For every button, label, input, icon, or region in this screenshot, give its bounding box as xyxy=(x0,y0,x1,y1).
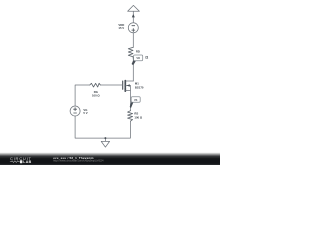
svg-text:Ω: Ω xyxy=(145,56,148,60)
ground triangle xyxy=(101,141,109,147)
arrowhead on VDD flag wire xyxy=(132,14,135,18)
svg-text:VS: VS xyxy=(134,98,138,102)
transistor M1 channel dashes xyxy=(124,81,126,92)
CircuitLab logo bolt block xyxy=(20,160,23,163)
voltage source VDD circle xyxy=(128,23,138,33)
wire RG to gate xyxy=(100,84,122,86)
wire source to RS xyxy=(129,91,131,111)
plus sign in VDD xyxy=(132,29,135,31)
CircuitLab logo zigzag xyxy=(10,161,20,163)
resistor RG zigzag xyxy=(90,83,101,87)
minus sign in VDD xyxy=(132,25,135,27)
minus sign in VG xyxy=(74,112,77,114)
svg-text:LAB: LAB xyxy=(23,160,31,164)
svg-text:VD: VD xyxy=(136,56,140,60)
transistor M1 gate bar xyxy=(122,81,124,89)
svg-text:5 V: 5 V xyxy=(83,111,87,115)
plus sign in VG xyxy=(74,108,77,110)
node flag VD xyxy=(132,55,143,65)
transistor M1 body stub with arrow xyxy=(126,85,131,87)
svg-text:BS170: BS170 xyxy=(135,86,144,90)
ground stub xyxy=(104,138,106,141)
wire VDD flag to source xyxy=(132,11,134,22)
wire VG up to gate corner xyxy=(75,85,90,106)
svg-text:RD: RD xyxy=(136,49,140,53)
resistor RS zigzag xyxy=(128,111,133,122)
transistor M1 source stub xyxy=(126,86,131,91)
voltage source VG circle xyxy=(70,106,80,116)
transistor M1 drain stub xyxy=(126,80,134,82)
wire RD to drain xyxy=(132,59,134,81)
wire VDD source to RD xyxy=(132,33,134,48)
node flag VS xyxy=(130,97,141,108)
VDD power flag triangle xyxy=(128,5,140,11)
junction dot at ground xyxy=(104,137,106,139)
svg-text:100 Ω: 100 Ω xyxy=(134,116,142,120)
svg-text:15 V: 15 V xyxy=(118,26,124,30)
resistor RD zigzag xyxy=(128,47,133,58)
wire RS to bottom rail xyxy=(75,116,130,138)
svg-text:100 Ω: 100 Ω xyxy=(92,94,100,98)
svg-text:http://www.circuitlab.com/c/6p: http://www.circuitlab.com/c/6py9xq/LMS24 xyxy=(53,159,104,163)
